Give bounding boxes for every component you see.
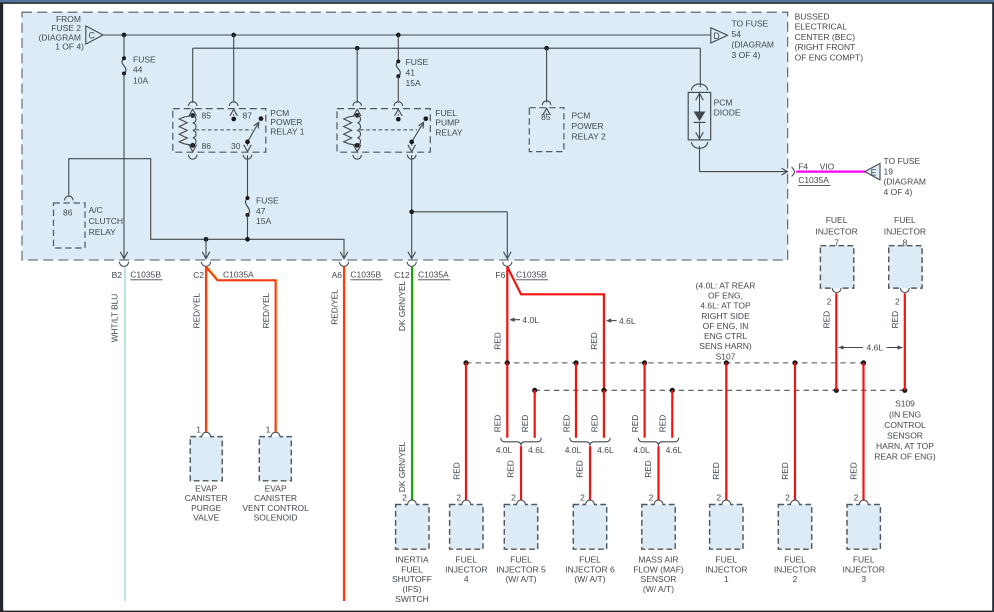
wire RED: S107 to 4.0L brace of MAF sensor — [630, 363, 645, 438]
svg-text:FUEL: FUEL — [435, 108, 457, 118]
junction: S107 / FI6 pair — [573, 360, 578, 365]
wire RED: F6 4.6L feed to splice S109 — [507, 267, 636, 391]
svg-text:2: 2 — [649, 492, 654, 502]
svg-text:4: 4 — [464, 574, 469, 584]
diode D1 bottom pin — [692, 122, 708, 148]
svg-text:RED: RED — [643, 460, 653, 478]
svg-text:RED: RED — [589, 415, 599, 433]
svg-text:C1035B: C1035B — [130, 270, 161, 280]
svg-text:INJECTOR: INJECTOR — [774, 564, 816, 574]
svg-text:FUEL: FUEL — [715, 555, 737, 565]
EVAP canister vent control solenoid — [242, 424, 309, 522]
label: 4.6L span arrow between injectors 7 and 8 — [839, 343, 903, 353]
fuel injector 7 — [815, 215, 857, 306]
svg-text:F6: F6 — [495, 270, 505, 280]
svg-text:REAR OF ENG): REAR OF ENG) — [874, 452, 936, 462]
relay K1 label — [270, 108, 304, 136]
svg-text:FUSE: FUSE — [406, 57, 429, 67]
wire RED: brace to fuel injector 5 — [505, 446, 521, 501]
svg-text:RED: RED — [780, 462, 790, 480]
svg-text:INJECTOR: INJECTOR — [705, 564, 747, 574]
svg-text:RIGHT SIDE: RIGHT SIDE — [701, 311, 750, 321]
wire: FUSE 41 to fuel pump relay — [397, 76, 399, 103]
relay K4: A/C CLUTCH RELAY — [54, 196, 124, 248]
wire WHT/LT BLU: B2 down — [110, 267, 126, 601]
svg-text:CENTER (BEC): CENTER (BEC) — [795, 32, 856, 42]
svg-text:RED: RED — [630, 415, 640, 433]
svg-text:FUSE: FUSE — [256, 196, 279, 206]
svg-text:RELAY 2: RELAY 2 — [572, 132, 606, 142]
svg-text:RED: RED — [574, 460, 584, 478]
wire RED: S109 to 4.6L brace of MAF sensor — [658, 390, 673, 438]
relay K2 switch pin (bottom) — [407, 140, 416, 160]
BEC name label — [795, 11, 864, 62]
wire RED: S107 to fuel injector 4 — [451, 363, 466, 501]
svg-text:8: 8 — [903, 238, 908, 248]
svg-text:2: 2 — [895, 297, 900, 307]
wire RED/YEL: C2 to EVAP canister purge valve — [192, 267, 208, 432]
svg-text:WHT/LT BLU: WHT/LT BLU — [110, 294, 120, 343]
svg-text:PCM: PCM — [572, 111, 591, 121]
svg-text:CANISTER: CANISTER — [254, 493, 297, 503]
svg-text:B2: B2 — [112, 270, 123, 280]
svg-text:PCM: PCM — [714, 98, 733, 108]
svg-text:DK GRN/YEL: DK GRN/YEL — [397, 280, 407, 331]
relay K1 box — [173, 109, 266, 153]
wire: relay coil supply bus — [193, 47, 701, 49]
svg-text:OF ENG COMPT): OF ENG COMPT) — [795, 52, 864, 62]
svg-text:SENSOR: SENSOR — [641, 574, 677, 584]
svg-text:PUMP: PUMP — [435, 118, 460, 128]
fuel injector 1 — [705, 492, 747, 584]
svg-text:OF ENG, IN: OF ENG, IN — [703, 321, 749, 331]
diode D1 element — [694, 112, 706, 123]
svg-text:POWER: POWER — [572, 121, 604, 131]
junction: S107 / FI3 — [861, 360, 866, 365]
junction: S109 / FI7 — [834, 388, 839, 393]
brace merge 4.0L/4.6L for fuel injector 5 — [496, 438, 545, 455]
svg-text:BUSSED: BUSSED — [795, 11, 830, 21]
svg-text:VALVE: VALVE — [193, 513, 219, 523]
mass air flow (MAF) sensor — [633, 492, 684, 594]
svg-text:1 OF 4): 1 OF 4) — [55, 42, 84, 52]
svg-text:(DIAGRAM: (DIAGRAM — [884, 177, 927, 187]
relay K2 switch — [360, 116, 428, 142]
svg-text:FLOW (MAF): FLOW (MAF) — [633, 564, 684, 574]
junction: S109 / FI8 — [902, 388, 907, 393]
svg-text:RED: RED — [561, 415, 571, 433]
svg-text:3 OF 4): 3 OF 4) — [732, 50, 761, 60]
svg-text:C: C — [89, 31, 96, 41]
svg-text:FUSE: FUSE — [133, 54, 156, 64]
relay K1 coil — [179, 116, 196, 146]
junction: coil bus / fuel pump relay coil — [355, 46, 360, 51]
svg-text:C12: C12 — [394, 270, 410, 280]
connector D: TO FUSE 54 (DIAGRAM 3 OF 4) — [711, 19, 774, 60]
BEC enclosure box (Bussed Electrical Center) — [22, 12, 788, 260]
junction: coil bus / PCM power relay 2 — [544, 46, 549, 51]
fuel injector 8 — [884, 215, 926, 306]
svg-text:A6: A6 — [332, 270, 343, 280]
svg-text:2: 2 — [402, 492, 407, 502]
connector C12 / C1035A — [394, 262, 450, 280]
svg-text:RED: RED — [505, 460, 515, 478]
svg-text:FUEL: FUEL — [579, 555, 601, 565]
svg-text:4.6L: 4.6L — [528, 445, 545, 455]
svg-text:INJECTOR 6: INJECTOR 6 — [565, 564, 615, 574]
junction: S107 / FI4 — [463, 360, 468, 365]
connector C2 / C1035A — [193, 262, 255, 280]
wire: A/C clutch relay to distribution bus — [69, 159, 348, 259]
svg-text:SHUTOFF: SHUTOFF — [392, 574, 432, 584]
relay K1 pin 85 — [188, 102, 211, 121]
svg-text:30: 30 — [231, 141, 241, 151]
svg-text:(W/ A/T): (W/ A/T) — [643, 584, 674, 594]
svg-text:2: 2 — [785, 492, 790, 502]
junction: distribution bus / connector C2 — [204, 237, 209, 242]
svg-text:EVAP: EVAP — [195, 483, 217, 493]
splice S109 bus — [535, 389, 905, 391]
svg-text:4.6L: 4.6L — [867, 343, 884, 353]
fuel injector 3 — [843, 492, 885, 584]
fuse FUSE 44 10A — [122, 35, 156, 85]
svg-text:4.0L: 4.0L — [496, 445, 513, 455]
svg-text:ELECTRICAL: ELECTRICAL — [795, 22, 848, 32]
svg-text:DK GRN/YEL: DK GRN/YEL — [397, 441, 407, 492]
svg-text:C1035A: C1035A — [418, 270, 449, 280]
svg-text:INJECTOR: INJECTOR — [884, 226, 926, 236]
relay K1 switch — [196, 116, 264, 142]
junction: S107 / FI1 — [724, 360, 729, 365]
svg-text:(W/ A/T): (W/ A/T) — [574, 574, 605, 584]
svg-text:FUEL: FUEL — [455, 555, 477, 565]
connector F4 / C1035A — [792, 161, 835, 185]
svg-text:86: 86 — [63, 207, 73, 217]
svg-text:CONTROL: CONTROL — [884, 420, 926, 430]
svg-text:7: 7 — [834, 238, 839, 248]
svg-text:4.0L: 4.0L — [565, 445, 582, 455]
relay K3: PCM POWER RELAY 2 — [529, 101, 606, 152]
junction: S107 / F6 feed — [505, 360, 510, 365]
junction: pin 30 wire split — [409, 209, 414, 214]
svg-text:86: 86 — [202, 141, 212, 151]
wire RED: S109 to 4.6L brace of injector 5 — [520, 390, 535, 438]
svg-text:2: 2 — [827, 297, 832, 307]
splice S109 label — [874, 399, 936, 462]
svg-text:15A: 15A — [256, 216, 271, 226]
svg-text:ENG CTRL: ENG CTRL — [704, 331, 747, 341]
svg-text:RED: RED — [493, 415, 503, 433]
fuel injector 4 — [445, 492, 487, 584]
svg-text:C1035A: C1035A — [798, 175, 829, 185]
svg-text:CANISTER: CANISTER — [185, 493, 228, 503]
diode D1 top pin — [692, 84, 708, 112]
svg-text:(DIAGRAM: (DIAGRAM — [732, 39, 775, 49]
svg-text:RED: RED — [821, 311, 831, 329]
wire: main power bus from connector C to connector D — [103, 34, 711, 36]
svg-text:MASS AIR: MASS AIR — [638, 555, 678, 565]
relay K2 coil pin (bottom) — [353, 143, 362, 159]
relay K1 pin 86 — [188, 141, 211, 159]
svg-text:85: 85 — [541, 112, 551, 122]
svg-text:RED: RED — [451, 462, 461, 480]
wire RED: 4.6L feed to brace of injector 6 — [589, 390, 604, 438]
wire RED: brace to fuel injector 6 — [574, 446, 590, 501]
svg-text:RED: RED — [589, 332, 599, 350]
svg-text:INJECTOR: INJECTOR — [843, 564, 885, 574]
svg-text:RED: RED — [890, 311, 900, 329]
svg-text:RELAY: RELAY — [435, 128, 463, 138]
fuel injector 2 — [774, 492, 816, 584]
splice S107 bus — [466, 362, 864, 364]
relay K2 coil pin (top) — [353, 102, 362, 118]
wire: distribution bus to connector C2 — [202, 239, 210, 258]
svg-text:RED: RED — [848, 462, 858, 480]
svg-text:2: 2 — [854, 492, 859, 502]
svg-text:RED: RED — [493, 332, 503, 350]
relay K3 pin 85 — [541, 101, 551, 122]
svg-text:4.0L: 4.0L — [633, 445, 650, 455]
svg-text:C1035A: C1035A — [223, 270, 254, 280]
svg-text:SWITCH: SWITCH — [395, 594, 429, 604]
svg-text:1: 1 — [266, 424, 271, 434]
wire VIO: F4 to connector E — [796, 170, 865, 172]
wire RED/YEL: A6 down — [329, 267, 345, 601]
svg-text:E: E — [871, 167, 877, 177]
junction: S109 / 4.6L feed — [601, 388, 606, 393]
svg-text:RED/YEL: RED/YEL — [192, 292, 202, 328]
svg-text:(IFS): (IFS) — [403, 584, 422, 594]
wire RED: fuel injector 7 to S109 — [821, 293, 836, 390]
wire: coil bus to fuel pump relay coil — [356, 48, 358, 103]
svg-text:(4.0L: AT REAR: (4.0L: AT REAR — [696, 280, 756, 290]
svg-text:INJECTOR 5: INJECTOR 5 — [496, 564, 546, 574]
brace merge 4.0L/4.6L for MAF sensor — [633, 438, 682, 455]
svg-text:4.6L: 4.6L — [619, 316, 636, 326]
svg-text:RELAY: RELAY — [89, 227, 117, 237]
brace merge 4.0L/4.6L for fuel injector 6 — [565, 438, 614, 455]
svg-text:1: 1 — [196, 424, 201, 434]
svg-text:FUEL: FUEL — [784, 555, 806, 565]
svg-text:2: 2 — [511, 492, 516, 502]
svg-text:HARN, AT TOP: HARN, AT TOP — [876, 441, 934, 451]
relay K2: FUEL PUMP RELAY — [337, 102, 463, 159]
svg-text:C1035B: C1035B — [350, 270, 381, 280]
wire: FUSE 44 to connector B2 — [120, 74, 128, 259]
svg-text:47: 47 — [256, 206, 266, 216]
wire RED: S107 to fuel injector 1 — [711, 363, 726, 501]
wire RED: S107 to 4.0L brace of injector 6 — [561, 363, 576, 438]
svg-text:S107: S107 — [716, 351, 736, 361]
connector A6 / C1035B — [332, 262, 383, 280]
wire RED/YEL: branch to EVAP canister vent control solenoid — [206, 267, 277, 432]
junction: distribution bus / FUSE 47 — [245, 237, 250, 242]
svg-text:4 OF 4): 4 OF 4) — [884, 187, 913, 197]
diode D1 label — [714, 98, 741, 118]
svg-text:RED: RED — [520, 415, 530, 433]
connector C: FROM FUSE 2 (DIAGRAM 1 OF 4) — [39, 14, 104, 52]
svg-text:SENS HARN): SENS HARN) — [699, 341, 752, 351]
svg-text:15A: 15A — [406, 78, 421, 88]
svg-text:TO FUSE: TO FUSE — [732, 19, 769, 29]
relay K2 coil — [344, 115, 361, 145]
junction: S109 / FI5 pair — [532, 388, 537, 393]
svg-text:2: 2 — [456, 492, 461, 502]
svg-text:DIODE: DIODE — [714, 108, 741, 118]
svg-text:54: 54 — [732, 29, 742, 39]
junction: S109 / MAF pair — [670, 388, 675, 393]
relay K3 label — [572, 111, 606, 142]
relay K2 label — [435, 108, 463, 138]
relay K2 box — [337, 109, 430, 153]
svg-text:RED: RED — [658, 415, 668, 433]
EVAP canister purge valve — [185, 424, 228, 522]
svg-text:TO FUSE: TO FUSE — [884, 156, 921, 166]
svg-text:2: 2 — [716, 492, 721, 502]
svg-text:4.6L: 4.6L — [597, 445, 614, 455]
svg-text:VIO: VIO — [820, 161, 835, 171]
svg-text:19: 19 — [884, 166, 894, 176]
wire DK GRN/YEL: C12 to inertia fuel shutoff switch — [397, 267, 414, 501]
svg-text:2: 2 — [580, 492, 585, 502]
connector B2 / C1035B — [112, 262, 163, 280]
fuel injector 5 — [496, 492, 546, 584]
svg-text:INJECTOR: INJECTOR — [815, 226, 857, 236]
wire RED: fuel injector 8 to S109 — [890, 293, 905, 390]
svg-text:S109: S109 — [895, 399, 915, 409]
fuse FUSE 41 15A — [396, 35, 428, 88]
wire RED: S107 to 4.0L brace of injector 5 — [493, 363, 508, 438]
junction: main bus / FUSE 41 tap — [396, 33, 401, 38]
svg-text:4.6L: AT TOP: 4.6L: AT TOP — [700, 301, 751, 311]
svg-text:C1035B: C1035B — [516, 270, 547, 280]
junction: main bus / relay 1 pin 87 — [231, 33, 236, 38]
svg-text:SENSOR: SENSOR — [887, 431, 923, 441]
wire: coil bus to PCM power relay 2 pin 85 — [546, 48, 548, 102]
svg-text:FUEL: FUEL — [894, 215, 916, 225]
svg-text:(RIGHT FRONT: (RIGHT FRONT — [795, 42, 856, 52]
relay K1 pin 87 — [229, 102, 252, 122]
inertia fuel shutoff (IFS) switch — [392, 492, 432, 604]
svg-text:FUEL: FUEL — [826, 215, 848, 225]
svg-text:FUEL: FUEL — [401, 564, 423, 574]
svg-text:(IN ENG: (IN ENG — [889, 409, 921, 419]
svg-text:VENT CONTROL: VENT CONTROL — [242, 503, 309, 513]
svg-text:RED/YEL: RED/YEL — [329, 289, 339, 325]
svg-text:C2: C2 — [193, 270, 204, 280]
fuse FUSE 47 15A — [245, 155, 279, 239]
wire RED: S107 to fuel injector 2 — [780, 363, 795, 501]
svg-text:RED/YEL: RED/YEL — [261, 292, 271, 328]
svg-text:CLUTCH: CLUTCH — [89, 216, 123, 226]
wire: fuel pump relay pin 30 to connectors C12 and F6 — [408, 155, 511, 258]
svg-text:PURGE: PURGE — [191, 503, 222, 513]
svg-text:OF ENG,: OF ENG, — [708, 290, 743, 300]
connector E: TO FUSE 19 (DIAGRAM 4 OF 4) — [865, 156, 926, 197]
wire: coil bus to PCM diode — [699, 48, 701, 87]
svg-text:4.0L: 4.0L — [522, 315, 539, 325]
relay K3 box — [529, 108, 564, 152]
svg-text:2: 2 — [793, 574, 798, 584]
svg-text:A/C: A/C — [89, 205, 103, 215]
svg-text:41: 41 — [406, 67, 416, 77]
diode D1: PCM DIODE — [688, 84, 741, 148]
svg-text:INERTIA: INERTIA — [395, 555, 429, 565]
connector F6 / C1035B — [495, 262, 548, 280]
junction: S107 / FI2 — [792, 360, 797, 365]
svg-text:EVAP: EVAP — [265, 483, 287, 493]
svg-text:3: 3 — [861, 574, 866, 584]
svg-text:87: 87 — [243, 111, 253, 121]
fuel injector 6 — [565, 492, 615, 584]
svg-text:(W/ A/T): (W/ A/T) — [505, 574, 536, 584]
wire RED: brace to MAF sensor — [643, 446, 659, 501]
svg-text:4.6L: 4.6L — [666, 445, 683, 455]
wire: PCM diode to connector F4 — [700, 146, 788, 175]
svg-text:10A: 10A — [133, 75, 148, 85]
svg-text:FUEL: FUEL — [510, 555, 532, 565]
diode D1 body — [688, 92, 711, 139]
junction: S107 / MAF pair — [642, 360, 647, 365]
junction: main bus / FUSE 44 tap — [122, 33, 127, 38]
relay K2 supply pin — [394, 102, 403, 122]
svg-text:RELAY 1: RELAY 1 — [270, 126, 304, 136]
svg-text:85: 85 — [202, 111, 212, 121]
svg-text:44: 44 — [133, 65, 143, 75]
svg-text:F4: F4 — [798, 161, 808, 171]
svg-text:FUEL: FUEL — [853, 555, 875, 565]
svg-text:SOLENOID: SOLENOID — [254, 513, 298, 523]
wire: coil bus to PCM power relay 1 pin 85 — [192, 48, 194, 103]
wire RED: S107 to fuel injector 3 — [848, 363, 863, 501]
relay K1: PCM POWER RELAY 1 — [173, 102, 305, 159]
svg-text:1: 1 — [724, 574, 729, 584]
svg-text:RED: RED — [711, 462, 721, 480]
splice S107 label — [696, 280, 756, 361]
wire: main bus to PCM power relay 1 pin 87 — [233, 35, 235, 103]
wire RED: F6 4.0L feed to splice S107 — [493, 267, 540, 363]
relay K1 pin 30 — [231, 140, 252, 160]
svg-text:D: D — [713, 31, 719, 41]
svg-text:INJECTOR: INJECTOR — [445, 564, 487, 574]
